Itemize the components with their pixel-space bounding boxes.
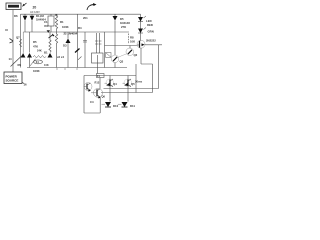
svg-text:Q7: Q7 <box>16 36 20 40</box>
transistor Q3b <box>111 55 119 63</box>
resistor R8 <box>128 34 130 45</box>
svg-text:x2 x4: x2 x4 <box>57 55 64 59</box>
svg-text:Q5: Q5 <box>131 82 135 86</box>
svg-text:Q4: Q4 <box>113 82 117 86</box>
ground return wire <box>84 76 100 114</box>
LED chain wire <box>140 14 142 41</box>
svg-text:47K: 47K <box>33 45 38 49</box>
svg-text:16: 16 <box>24 83 28 87</box>
svg-text:B1: B1 <box>44 51 48 55</box>
wire rail x77 <box>77 14 79 67</box>
transistor Q7b <box>94 88 103 97</box>
block 20 label box <box>6 3 21 10</box>
wiper link wire <box>30 59 36 66</box>
potentiometer wiper arrow <box>11 56 22 67</box>
svg-text:D10: D10 <box>113 104 119 108</box>
potentiometer VR1 leg A <box>29 32 31 53</box>
bus 7 wire <box>104 88 159 90</box>
resistor R1 <box>55 14 57 32</box>
svg-text:R12: R12 <box>95 81 100 85</box>
transistor Q7 <box>10 39 14 44</box>
svg-text:R1: R1 <box>60 20 64 24</box>
svg-text:C1: C1 <box>44 20 48 24</box>
bus 5 wire <box>84 75 136 77</box>
curved arrow 10 <box>87 5 94 11</box>
svg-text:20: 20 <box>33 6 37 10</box>
crystal Y1 <box>92 53 104 63</box>
diode D2 <box>30 16 35 21</box>
diode D4 <box>47 30 50 33</box>
svg-text:RED: RED <box>147 23 153 27</box>
wire rail x85 <box>84 32 86 68</box>
resistor R2 <box>55 32 57 68</box>
power source box <box>4 72 22 84</box>
transistor Q1 <box>137 40 145 48</box>
fuse F1 <box>97 74 105 78</box>
wire rail x136 <box>135 64 137 93</box>
bus 4 wire <box>27 67 127 69</box>
svg-text:10K: 10K <box>44 63 49 67</box>
svg-text:D6: D6 <box>14 14 18 18</box>
transistor Q4 <box>106 79 114 87</box>
svg-text:R4: R4 <box>78 26 82 30</box>
svg-text:R9: R9 <box>18 63 22 67</box>
svg-text:Q2: Q2 <box>134 53 138 57</box>
svg-text:27K: 27K <box>121 25 126 29</box>
svg-text:24K: 24K <box>37 49 42 53</box>
label 12 <box>5 29 8 31</box>
svg-text:201: 201 <box>83 16 88 20</box>
svg-text:C4: C4 <box>90 100 94 104</box>
potentiometer VR1 leg B <box>49 32 51 53</box>
transformer T1 windings <box>97 33 100 53</box>
svg-text:Q3: Q3 <box>120 60 124 64</box>
svg-text:Q6: Q6 <box>102 95 106 99</box>
transistor Q5 <box>124 79 132 87</box>
label 16 <box>22 82 25 84</box>
bus 8 wire <box>101 92 153 94</box>
diode D3 <box>67 32 69 68</box>
wire rail 2 <box>20 14 22 67</box>
svg-text:D11: D11 <box>130 104 135 108</box>
emitter wire Q7b <box>99 97 101 113</box>
svg-text:D3: D3 <box>63 44 67 48</box>
svg-text:36: 36 <box>55 13 59 17</box>
svg-text:22 1N4004: 22 1N4004 <box>64 32 78 36</box>
wire left rail <box>12 10 14 73</box>
resistor R10 <box>20 39 22 47</box>
label arrow 22 <box>49 35 54 39</box>
diode D5 <box>114 14 116 16</box>
transistor Q8 <box>75 49 80 53</box>
svg-text:100K: 100K <box>33 69 40 73</box>
svg-text:35V: 35V <box>44 24 49 28</box>
svg-text:14: 14 <box>9 57 13 61</box>
bus 2 wire <box>25 31 129 33</box>
transistor Q2 <box>126 48 134 56</box>
svg-text:10K: 10K <box>130 40 135 44</box>
wire rail x104 <box>104 32 106 68</box>
capacitor C1 <box>48 16 54 26</box>
svg-text:100K: 100K <box>62 25 69 29</box>
LED LED2 <box>138 29 143 34</box>
wire D1 column lower <box>23 32 25 53</box>
svg-text:R5: R5 <box>33 40 37 44</box>
emitter wire <box>141 48 153 93</box>
diode D7 <box>21 53 26 58</box>
arrow to block 20 <box>24 3 27 6</box>
potentiometer VR1 body <box>33 56 46 58</box>
connector J1 <box>106 53 112 58</box>
top bus wire <box>21 13 141 15</box>
label oval 24 <box>34 60 43 64</box>
svg-text:2N2222: 2N2222 <box>146 39 156 43</box>
wire collector Q7b <box>99 78 101 89</box>
svg-text:SOURCE: SOURCE <box>6 79 19 83</box>
collector bus wire <box>145 44 162 46</box>
diode D11 <box>122 102 128 107</box>
LED LED1 <box>138 17 143 22</box>
transistor Q6 <box>84 83 92 91</box>
diode D10 <box>105 102 111 107</box>
svg-text:GRN: GRN <box>148 30 154 34</box>
diode D1 <box>23 16 28 21</box>
bus 3 wire <box>105 45 138 47</box>
